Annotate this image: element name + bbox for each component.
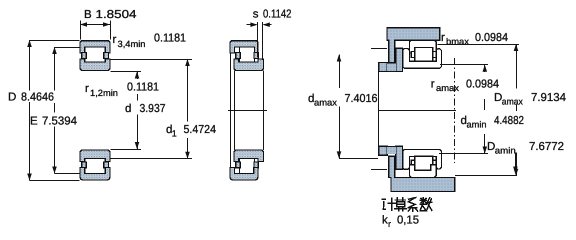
svg-text:8.4646: 8.4646 (21, 92, 54, 104)
svg-text:1,2min: 1,2min (90, 88, 118, 98)
middle view roller (bottom half) (240, 159, 255, 174)
middle view outer ring (bottom half) rounded corners (230, 168, 258, 181)
left view inner ring with flanges (bottom half) (80, 150, 110, 162)
dimension d line with arrows (137, 72, 139, 80)
dimension E extension lines (55, 47, 80, 49)
dimension Da max line with arrows (516, 44, 518, 89)
right view cage pockets (top half) (411, 51, 414, 57)
svg-text:0.0984: 0.0984 (475, 32, 509, 44)
right view inner ring (bottom half, tall flanges) (403, 149, 442, 169)
middle view cage pockets (top half) (236, 53, 240, 59)
middle view inner ring (bottom half) (234, 150, 264, 162)
svg-text:7.9134: 7.9134 (531, 92, 567, 104)
dimension Da max extension lines (438, 44, 520, 46)
dimension E line with arrows (54, 47, 56, 91)
svg-text:r: r (388, 219, 391, 229)
dimension s extension lines (257, 22, 259, 57)
shaft seat segment between collar and spacer (top) (387, 63, 396, 71)
svg-text:r: r (113, 34, 117, 46)
shaft left face line (378, 63, 380, 156)
svg-text:3.937: 3.937 (140, 103, 166, 115)
shaft collar (bottom) (379, 146, 387, 155)
svg-text:E: E (30, 115, 38, 127)
left view outer ring (bottom half) with lips and rounded corners (80, 168, 110, 181)
dimension d extension lines (111, 71, 142, 73)
svg-text:B: B (84, 9, 92, 21)
svg-text:s: s (253, 9, 259, 21)
svg-text:amax: amax (314, 98, 338, 108)
dimension D extension lines (30, 40, 80, 42)
right view cage pockets (bottom half) (411, 160, 414, 166)
middle view outer ring (top half) with lips (230, 41, 258, 53)
svg-text:amax: amax (502, 97, 523, 107)
dimension B line with arrows (80, 24, 110, 26)
dimension d1 line with arrows (187, 59, 189, 122)
dimension da min line with arrows (484, 65, 486, 72)
middle view inner ring (top half, face offset s) (234, 59, 264, 71)
svg-text:amax: amax (436, 83, 460, 93)
left view inner ring with flanges (top half) (80, 59, 110, 71)
shaft collar (top left abutment) (379, 63, 387, 72)
caption 计算系数 (382, 198, 432, 212)
dimension d1 extension lines (111, 59, 193, 61)
svg-text:0,15: 0,15 (397, 215, 419, 227)
left view outer ring (top half) with side lips (80, 41, 110, 53)
middle view roller (top half) (240, 47, 255, 62)
collar top ext line (371, 48, 387, 50)
svg-text:d: d (125, 103, 131, 115)
dimension B extension lines (80, 21, 82, 40)
dimension s arrows (247, 24, 257, 26)
svg-text:4.4882: 4.4882 (494, 115, 524, 127)
spacer ring (bottom) (396, 146, 403, 169)
svg-text:0.1181: 0.1181 (154, 33, 186, 45)
svg-text:3,4min: 3,4min (118, 39, 146, 49)
right view roller (top half) (415, 48, 433, 62)
svg-text:1: 1 (172, 129, 177, 139)
svg-text:bmax: bmax (446, 37, 470, 47)
middle view cage pockets (bottom half) (236, 162, 240, 168)
axis line right view (379, 110, 456, 112)
right view roller (bottom half) (415, 156, 433, 170)
housing body top (387, 28, 440, 63)
left view roller (bottom half) (85, 159, 106, 174)
dimension D line with arrows (29, 40, 31, 91)
left view cage pockets (top half) (82, 53, 87, 59)
left view cage pockets (bottom half) (82, 162, 87, 168)
right view outer ring (top half) (409, 40, 436, 53)
right view inner ring (top half, tall flanges) (403, 48, 442, 68)
shaft end centerline (dash-dot) (453, 58, 455, 163)
svg-text:r: r (85, 83, 89, 95)
dimension da max extension line (339, 158, 378, 160)
svg-text:7.5394: 7.5394 (42, 115, 78, 127)
middle view axis line (228, 110, 267, 112)
svg-text:amin: amin (495, 146, 516, 156)
svg-text:0.1181: 0.1181 (127, 82, 159, 94)
dimension da min extension lines (440, 64, 488, 66)
dimension Da min line with arrow (515, 153, 517, 174)
svg-text:D: D (8, 92, 16, 104)
spacer ring (top) (396, 48, 403, 71)
svg-text:7.4016: 7.4016 (345, 93, 378, 105)
middle view silhouette lines (230, 53, 232, 168)
svg-text:7.6772: 7.6772 (529, 141, 564, 153)
svg-text:0.0984: 0.0984 (466, 79, 500, 91)
svg-text:5.4724: 5.4724 (184, 124, 217, 136)
dimension da max line with arrows (339, 55, 341, 89)
svg-text:0.1142: 0.1142 (263, 9, 292, 21)
svg-text:r: r (441, 32, 445, 44)
housing body bottom (389, 156, 455, 191)
svg-text:amin: amin (467, 120, 487, 130)
svg-text:1.8504: 1.8504 (96, 9, 138, 21)
left view roller (top half) (85, 47, 106, 62)
svg-text:r: r (431, 79, 435, 91)
shaft seat segment (bottom) (387, 146, 396, 154)
collar bottom ext line (371, 169, 387, 171)
right view outer ring (bottom half) (409, 165, 436, 178)
